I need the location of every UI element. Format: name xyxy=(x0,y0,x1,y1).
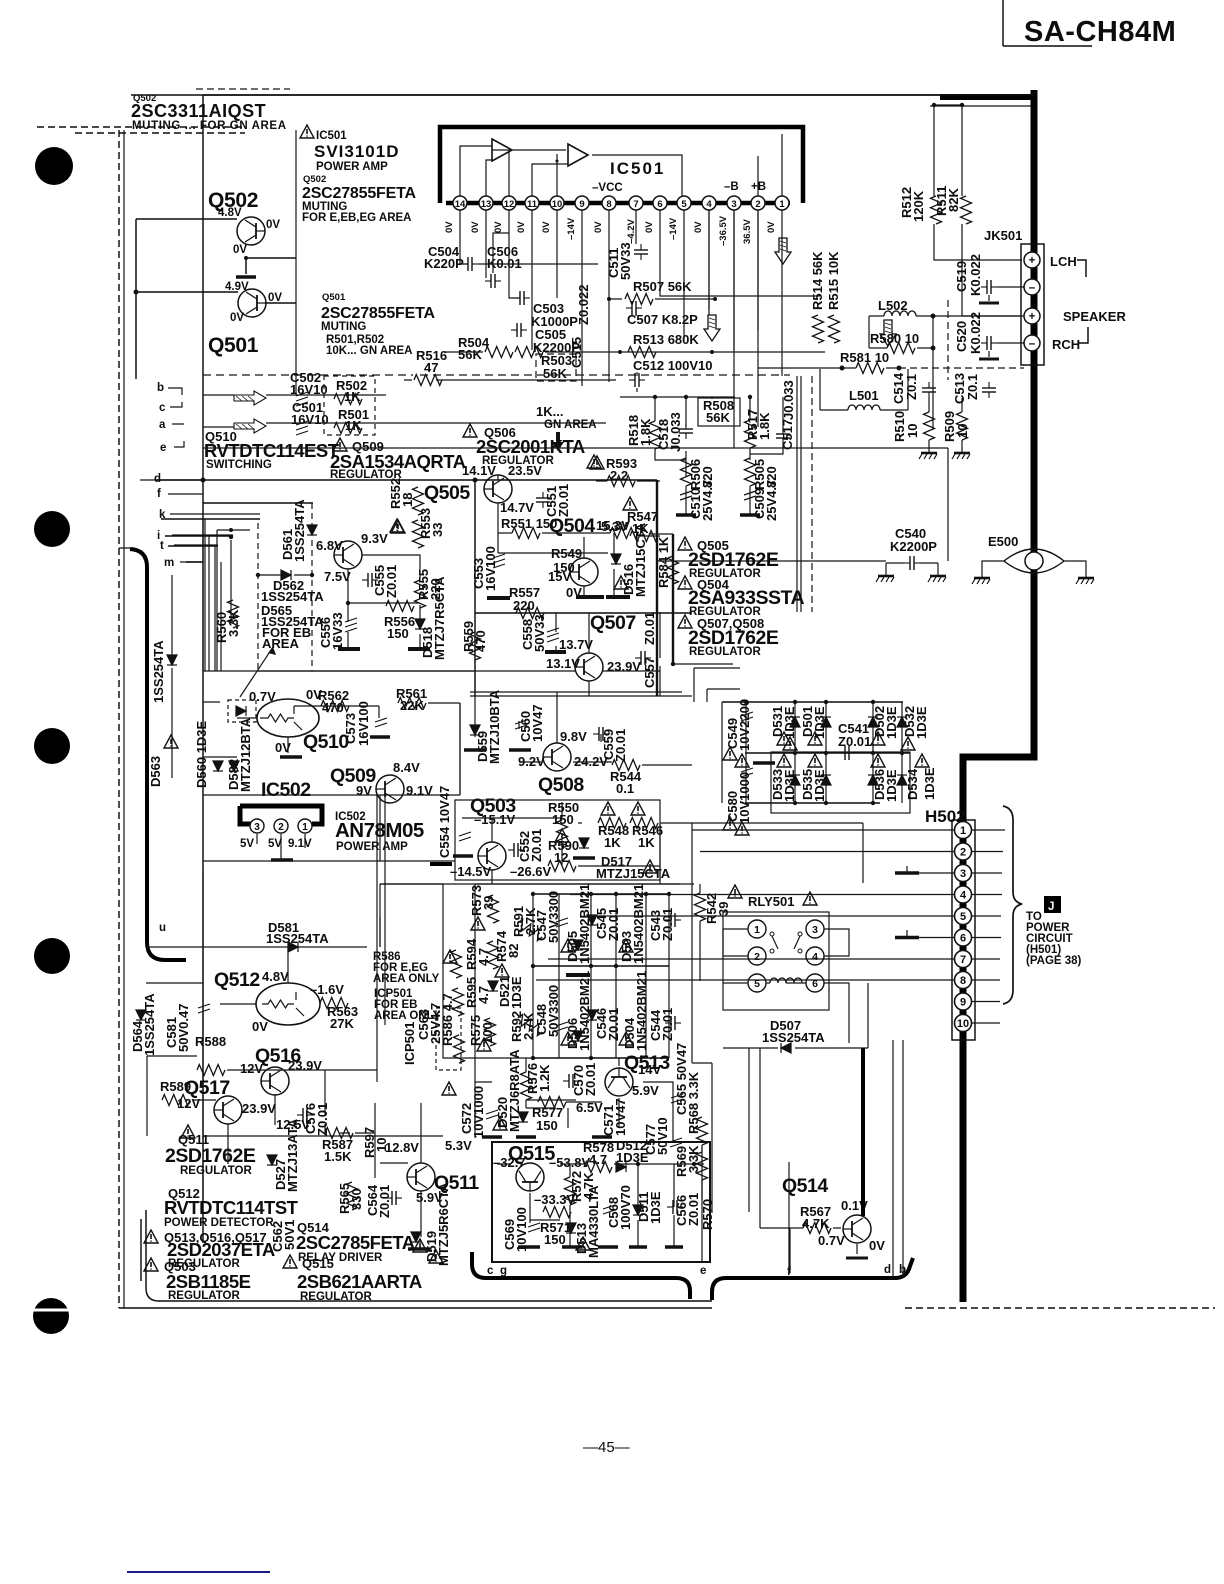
svg-text:2SD2037ETA: 2SD2037ETA xyxy=(167,1239,275,1260)
svg-text:Q507: Q507 xyxy=(590,612,636,634)
svg-text:2SD1762E: 2SD1762E xyxy=(165,1145,256,1167)
svg-text:Z0.01: Z0.01 xyxy=(660,1008,675,1041)
svg-text:MTZJ12BTA: MTZJ12BTA xyxy=(238,717,253,792)
svg-text:REGULATOR: REGULATOR xyxy=(689,646,761,658)
svg-text:50V10: 50V10 xyxy=(655,1117,670,1155)
svg-text:2SC27855FETA: 2SC27855FETA xyxy=(321,305,435,322)
svg-text:Q515: Q515 xyxy=(302,1256,334,1271)
svg-text:Z0.01: Z0.01 xyxy=(838,734,871,749)
svg-text:18: 18 xyxy=(400,493,415,507)
svg-text:a: a xyxy=(159,419,166,431)
svg-text:REGULATOR: REGULATOR xyxy=(168,1290,240,1302)
svg-text:5: 5 xyxy=(681,199,687,210)
svg-text:c: c xyxy=(159,402,166,414)
svg-text:0V: 0V xyxy=(693,221,704,233)
svg-text:25V4.7: 25V4.7 xyxy=(428,1003,443,1044)
svg-text:R581 10: R581 10 xyxy=(840,350,889,365)
svg-text:2: 2 xyxy=(754,951,760,963)
svg-text:u: u xyxy=(159,922,166,934)
svg-text:–4.2V: –4.2V xyxy=(626,219,637,244)
svg-text:SWITCHING: SWITCHING xyxy=(206,459,272,471)
svg-text:Z0.1: Z0.1 xyxy=(904,374,919,400)
svg-text:2SB621AARTA: 2SB621AARTA xyxy=(297,1271,422,1292)
svg-text:SA-CH84M: SA-CH84M xyxy=(1024,16,1176,48)
svg-text:2SB1185E: 2SB1185E xyxy=(166,1271,251,1292)
svg-text:13: 13 xyxy=(481,199,492,210)
svg-text:23.9V: 23.9V xyxy=(242,1101,276,1116)
svg-text:C512 100V10: C512 100V10 xyxy=(633,358,713,373)
svg-text:GN AREA: GN AREA xyxy=(544,419,597,431)
svg-text:R513 680K: R513 680K xyxy=(633,332,699,347)
svg-text:9V: 9V xyxy=(356,783,372,798)
svg-text:C520: C520 xyxy=(954,321,969,352)
svg-text:R514 56K: R514 56K xyxy=(810,251,825,310)
svg-text:1D3E: 1D3E xyxy=(914,706,929,739)
svg-text:2SC2785FETA: 2SC2785FETA xyxy=(296,1232,415,1253)
svg-text:4: 4 xyxy=(812,951,818,963)
svg-text:–26.6V: –26.6V xyxy=(510,864,552,879)
svg-text:–B: –B xyxy=(724,181,739,193)
svg-text:150: 150 xyxy=(544,1232,566,1247)
svg-text:R568 3.3K: R568 3.3K xyxy=(686,1071,701,1134)
svg-text:0.7V: 0.7V xyxy=(818,1233,845,1248)
svg-text:10: 10 xyxy=(905,424,920,438)
svg-text:(PAGE 38): (PAGE 38) xyxy=(1026,955,1082,967)
svg-text:IC502: IC502 xyxy=(261,779,311,801)
svg-text:47: 47 xyxy=(424,360,438,375)
svg-text:RCH: RCH xyxy=(1052,337,1080,352)
svg-text:1K: 1K xyxy=(638,835,655,850)
svg-text:0V: 0V xyxy=(266,219,280,231)
svg-text:10V47: 10V47 xyxy=(530,704,545,742)
svg-text:11: 11 xyxy=(527,199,538,210)
svg-text:R515 10K: R515 10K xyxy=(826,251,841,310)
svg-text:f: f xyxy=(157,488,161,500)
svg-text:14V: 14V xyxy=(638,1062,661,1077)
svg-text:Z0.01: Z0.01 xyxy=(556,484,571,517)
svg-text:0V: 0V xyxy=(869,1238,885,1253)
svg-text:L501: L501 xyxy=(849,388,879,403)
svg-text:0V: 0V xyxy=(516,221,527,233)
svg-text:56K: 56K xyxy=(458,347,482,362)
svg-text:2SC2001KTA: 2SC2001KTA xyxy=(476,436,585,457)
svg-text:5: 5 xyxy=(960,911,966,923)
svg-text:25V4.7: 25V4.7 xyxy=(700,480,715,521)
svg-text:2SC3311AIQST: 2SC3311AIQST xyxy=(131,101,266,121)
svg-text:10K... GN AREA: 10K... GN AREA xyxy=(326,345,412,357)
svg-text:Z0.01: Z0.01 xyxy=(660,908,675,941)
svg-text:POWER AMP: POWER AMP xyxy=(316,161,388,173)
svg-text:1: 1 xyxy=(302,822,308,833)
svg-text:J: J xyxy=(1048,901,1054,913)
svg-text:3: 3 xyxy=(960,868,966,880)
svg-text:0V: 0V xyxy=(493,221,504,233)
svg-text:MUTING ... FOR GN AREA: MUTING ... FOR GN AREA xyxy=(132,120,287,132)
svg-text:4: 4 xyxy=(706,199,712,210)
svg-text:10V2200: 10V2200 xyxy=(737,699,752,751)
svg-text:POWER AMP: POWER AMP xyxy=(336,841,408,853)
svg-text:12V: 12V xyxy=(240,1061,263,1076)
svg-text:0V: 0V xyxy=(444,221,455,233)
svg-text:6.8V: 6.8V xyxy=(316,538,343,553)
svg-text:0V: 0V xyxy=(233,244,247,256)
svg-text:–VCC: –VCC xyxy=(592,182,623,194)
svg-text:MUTING: MUTING xyxy=(321,321,366,333)
svg-text:–: – xyxy=(1029,282,1036,294)
svg-text:8: 8 xyxy=(960,975,966,987)
svg-text:7.5V: 7.5V xyxy=(324,569,351,584)
svg-text:14.1V: 14.1V xyxy=(462,463,496,478)
svg-text:1: 1 xyxy=(779,199,785,210)
svg-text:4: 4 xyxy=(960,890,967,902)
svg-text:9: 9 xyxy=(579,199,584,210)
svg-text:+: + xyxy=(1029,311,1036,323)
svg-text:SVI3101D: SVI3101D xyxy=(314,142,400,161)
svg-text:10V1000: 10V1000 xyxy=(471,1086,486,1138)
svg-text:e: e xyxy=(700,1265,706,1277)
svg-text:AREA ONLY: AREA ONLY xyxy=(373,973,440,985)
svg-text:JK501: JK501 xyxy=(984,228,1022,243)
svg-text:R580 10: R580 10 xyxy=(870,331,919,346)
svg-text:K220P: K220P xyxy=(424,256,464,271)
svg-text:1D3E: 1D3E xyxy=(509,976,524,1009)
svg-text:1N5402BM21: 1N5402BM21 xyxy=(577,884,592,964)
svg-text:23.5V: 23.5V xyxy=(508,463,542,478)
svg-text:50V3300: 50V3300 xyxy=(546,891,561,943)
svg-text:D563: D563 xyxy=(148,756,163,787)
svg-text:J0.033: J0.033 xyxy=(668,412,683,452)
svg-text:SPEAKER: SPEAKER xyxy=(1063,309,1126,324)
svg-text:1D3E: 1D3E xyxy=(648,1191,663,1224)
svg-text:5.9V: 5.9V xyxy=(632,1083,659,1098)
svg-text:t: t xyxy=(160,540,164,552)
svg-text:MTZJ6R8ATA: MTZJ6R8ATA xyxy=(507,1049,522,1132)
svg-text:MTZJ13ATA: MTZJ13ATA xyxy=(285,1118,300,1192)
svg-text:–14V: –14V xyxy=(668,217,679,240)
svg-text:m: m xyxy=(164,557,174,569)
svg-text:12.8V: 12.8V xyxy=(385,1140,419,1155)
svg-text:3.3K: 3.3K xyxy=(686,1145,701,1173)
svg-text:1SS254TA: 1SS254TA xyxy=(292,499,307,562)
svg-text:Z0.01: Z0.01 xyxy=(642,612,657,645)
svg-text:2: 2 xyxy=(278,822,284,833)
svg-text:220: 220 xyxy=(428,578,443,600)
svg-text:13.7V: 13.7V xyxy=(559,637,593,652)
svg-text:POWER DETECTOR: POWER DETECTOR xyxy=(164,1217,274,1229)
svg-text:Z0.01: Z0.01 xyxy=(315,1103,330,1136)
svg-text:9.1V: 9.1V xyxy=(406,783,433,798)
svg-text:5V: 5V xyxy=(240,838,254,850)
svg-text:100V70: 100V70 xyxy=(618,1185,633,1230)
svg-text:REGULATOR: REGULATOR xyxy=(180,1165,252,1177)
svg-text:4.8V: 4.8V xyxy=(262,969,289,984)
svg-text:16V100: 16V100 xyxy=(356,701,371,746)
svg-text:12: 12 xyxy=(504,199,515,210)
svg-text:0.1: 0.1 xyxy=(616,781,634,796)
svg-text:–36.5V: –36.5V xyxy=(718,215,729,246)
svg-text:5.3V: 5.3V xyxy=(601,519,628,534)
svg-text:Z0.01: Z0.01 xyxy=(686,1193,701,1226)
svg-text:150: 150 xyxy=(387,626,409,641)
svg-text:10V47: 10V47 xyxy=(613,1098,628,1136)
svg-text:0V: 0V xyxy=(644,221,655,233)
svg-text:K2200P: K2200P xyxy=(890,539,937,554)
svg-text:50V33: 50V33 xyxy=(532,614,547,652)
svg-text:R588: R588 xyxy=(195,1034,226,1049)
svg-text:9.1V: 9.1V xyxy=(288,838,312,850)
svg-text:50V3300: 50V3300 xyxy=(546,985,561,1037)
svg-text:12V: 12V xyxy=(177,1096,200,1111)
svg-text:e: e xyxy=(160,442,166,454)
svg-text:–32.7: –32.7 xyxy=(493,1155,526,1170)
svg-text:Q504: Q504 xyxy=(549,515,595,537)
svg-text:R507 56K: R507 56K xyxy=(633,279,692,294)
svg-text:1: 1 xyxy=(754,924,760,936)
svg-text:1D3E: 1D3E xyxy=(884,706,899,739)
svg-text:8: 8 xyxy=(606,199,611,210)
svg-text:10: 10 xyxy=(552,199,563,210)
svg-text:Z0.01: Z0.01 xyxy=(583,1063,598,1096)
svg-text:36.5V: 36.5V xyxy=(742,219,753,244)
svg-text:LCH: LCH xyxy=(1050,254,1077,269)
svg-text:R584 1K: R584 1K xyxy=(656,536,671,588)
svg-text:120K: 120K xyxy=(911,190,926,222)
svg-text:MTZJ15CTA: MTZJ15CTA xyxy=(633,522,648,597)
svg-text:4.8V: 4.8V xyxy=(218,207,242,219)
svg-text:MTZJ10BTA: MTZJ10BTA xyxy=(487,689,502,764)
svg-text:8.4V: 8.4V xyxy=(393,760,420,775)
svg-text:1.2K: 1.2K xyxy=(537,1064,552,1092)
svg-text:82K: 82K xyxy=(946,188,961,212)
svg-text:50V0.47: 50V0.47 xyxy=(176,1004,191,1052)
svg-text:Q502: Q502 xyxy=(303,174,326,185)
svg-text:–33.3V: –33.3V xyxy=(534,1192,576,1207)
svg-text:0V: 0V xyxy=(252,1019,268,1034)
svg-text:AREA: AREA xyxy=(262,636,299,651)
svg-text:2SC27855FETA: 2SC27855FETA xyxy=(302,185,416,202)
svg-text:16V33: 16V33 xyxy=(330,612,345,650)
svg-text:ICP501: ICP501 xyxy=(402,1022,417,1065)
svg-text:IC501: IC501 xyxy=(316,130,347,142)
svg-text:27K: 27K xyxy=(330,1016,354,1031)
svg-text:0V: 0V xyxy=(541,221,552,233)
svg-text:9.3V: 9.3V xyxy=(361,531,388,546)
svg-text:IC501: IC501 xyxy=(610,159,665,178)
svg-text:16V10: 16V10 xyxy=(290,382,328,397)
svg-text:56K: 56K xyxy=(706,410,730,425)
svg-text:14: 14 xyxy=(455,199,466,210)
svg-text:Z0.01: Z0.01 xyxy=(606,1008,621,1041)
svg-text:–: – xyxy=(1029,338,1036,350)
svg-text:2: 2 xyxy=(755,199,760,210)
svg-text:–14.5V: –14.5V xyxy=(450,864,492,879)
svg-text:Q508: Q508 xyxy=(538,774,584,796)
svg-text:16V100: 16V100 xyxy=(483,546,498,591)
svg-text:2: 2 xyxy=(960,847,966,859)
svg-text:150: 150 xyxy=(536,1118,558,1133)
svg-text:C554 10V47: C554 10V47 xyxy=(437,786,452,858)
svg-text:1N5402BM21: 1N5402BM21 xyxy=(634,971,649,1051)
svg-text:23.9V: 23.9V xyxy=(607,659,641,674)
svg-text:1: 1 xyxy=(960,825,966,837)
svg-text:Q505: Q505 xyxy=(424,482,470,504)
svg-text:1D3E: 1D3E xyxy=(922,767,937,800)
svg-text:1SS254TA: 1SS254TA xyxy=(261,589,324,604)
svg-text:C557: C557 xyxy=(642,657,657,688)
svg-text:+: + xyxy=(1029,255,1036,267)
svg-text:4.7: 4.7 xyxy=(476,986,491,1004)
svg-text:0V: 0V xyxy=(593,221,604,233)
svg-text:1SS254TA: 1SS254TA xyxy=(762,1030,825,1045)
svg-text:RVTDTC114TST: RVTDTC114TST xyxy=(164,1197,299,1218)
svg-text:6: 6 xyxy=(960,933,966,945)
svg-text:C507 K8.2P: C507 K8.2P xyxy=(627,312,698,327)
svg-text:9.8V: 9.8V xyxy=(560,729,587,744)
svg-text:5.3V: 5.3V xyxy=(445,1138,472,1153)
svg-text:0V: 0V xyxy=(766,221,777,233)
svg-text:23.9V: 23.9V xyxy=(288,1058,322,1073)
svg-text:b: b xyxy=(157,382,164,394)
svg-text:Z0.01: Z0.01 xyxy=(529,829,544,862)
svg-text:0V: 0V xyxy=(230,312,244,324)
svg-text:10: 10 xyxy=(957,1018,969,1030)
svg-text:7: 7 xyxy=(960,954,966,966)
svg-text:d: d xyxy=(884,1264,891,1276)
svg-text:Q512: Q512 xyxy=(214,969,260,991)
svg-text:15V: 15V xyxy=(548,569,571,584)
svg-text:3: 3 xyxy=(731,199,736,210)
svg-text:E500: E500 xyxy=(988,534,1018,549)
svg-text:–1.6V: –1.6V xyxy=(310,982,344,997)
svg-text:3: 3 xyxy=(812,924,818,936)
svg-text:7: 7 xyxy=(633,199,638,210)
svg-text:82: 82 xyxy=(506,944,521,958)
svg-text:Q501: Q501 xyxy=(322,292,346,303)
svg-text:14.7V: 14.7V xyxy=(500,500,534,515)
svg-text:Z0.01: Z0.01 xyxy=(377,1185,392,1218)
svg-text:1K: 1K xyxy=(604,835,621,850)
svg-text:D560 1D3E: D560 1D3E xyxy=(194,720,209,788)
svg-text:3: 3 xyxy=(254,822,260,833)
svg-text:D534: D534 xyxy=(905,768,920,800)
svg-text:0V: 0V xyxy=(470,221,481,233)
svg-text:33: 33 xyxy=(430,523,445,537)
svg-text:RVTDTC114EST: RVTDTC114EST xyxy=(204,440,340,461)
svg-text:9: 9 xyxy=(960,997,966,1009)
svg-text:25V4.7: 25V4.7 xyxy=(764,480,779,521)
svg-text:6: 6 xyxy=(657,199,662,210)
svg-text:Z0.01: Z0.01 xyxy=(613,729,628,762)
svg-text:1SS254TA: 1SS254TA xyxy=(142,993,157,1056)
svg-text:Z0.1: Z0.1 xyxy=(965,374,980,400)
svg-text:5V: 5V xyxy=(268,838,282,850)
svg-text:Z0.01: Z0.01 xyxy=(384,565,399,598)
svg-text:1SS254TA: 1SS254TA xyxy=(151,640,166,703)
svg-text:1K...: 1K... xyxy=(536,404,563,419)
svg-text:C519: C519 xyxy=(954,261,969,292)
svg-text:56K: 56K xyxy=(543,366,567,381)
svg-text:Q501: Q501 xyxy=(208,334,259,357)
svg-text:K0.022: K0.022 xyxy=(968,312,983,354)
svg-text:—45—: —45— xyxy=(583,1439,630,1456)
svg-text:10V1000: 10V1000 xyxy=(737,772,752,824)
svg-text:50V1: 50V1 xyxy=(282,1220,297,1250)
svg-text:–15.1V: –15.1V xyxy=(474,812,516,827)
svg-text:g: g xyxy=(500,1265,507,1277)
svg-text:0V: 0V xyxy=(268,292,282,304)
svg-text:K0.022: K0.022 xyxy=(968,254,983,296)
svg-text:Z0.022: Z0.022 xyxy=(576,285,591,325)
svg-text:1.8K: 1.8K xyxy=(757,412,772,440)
svg-text:RLY501: RLY501 xyxy=(748,894,795,909)
svg-text:–14V: –14V xyxy=(566,217,577,240)
svg-text:50V33: 50V33 xyxy=(618,242,633,280)
svg-text:FOR E,EB,EG AREA: FOR E,EB,EG AREA xyxy=(302,212,411,224)
svg-text:d: d xyxy=(154,473,161,485)
svg-text:0V: 0V xyxy=(275,740,291,755)
svg-text:c: c xyxy=(487,1265,494,1277)
svg-text:1.5K: 1.5K xyxy=(324,1149,352,1164)
